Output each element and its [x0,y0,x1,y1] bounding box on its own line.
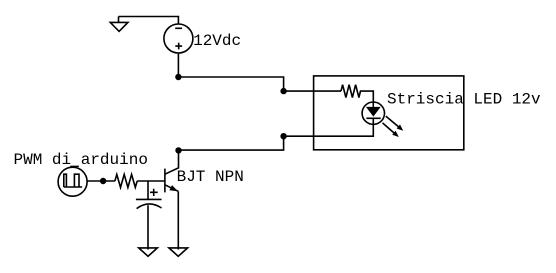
svg-text:BJT NPN: BJT NPN [177,168,244,186]
svg-text:12Vdc: 12Vdc [193,32,241,50]
svg-text:Striscia LED 12v: Striscia LED 12v [387,91,541,109]
svg-text:PWM di arduino: PWM di arduino [14,151,148,169]
